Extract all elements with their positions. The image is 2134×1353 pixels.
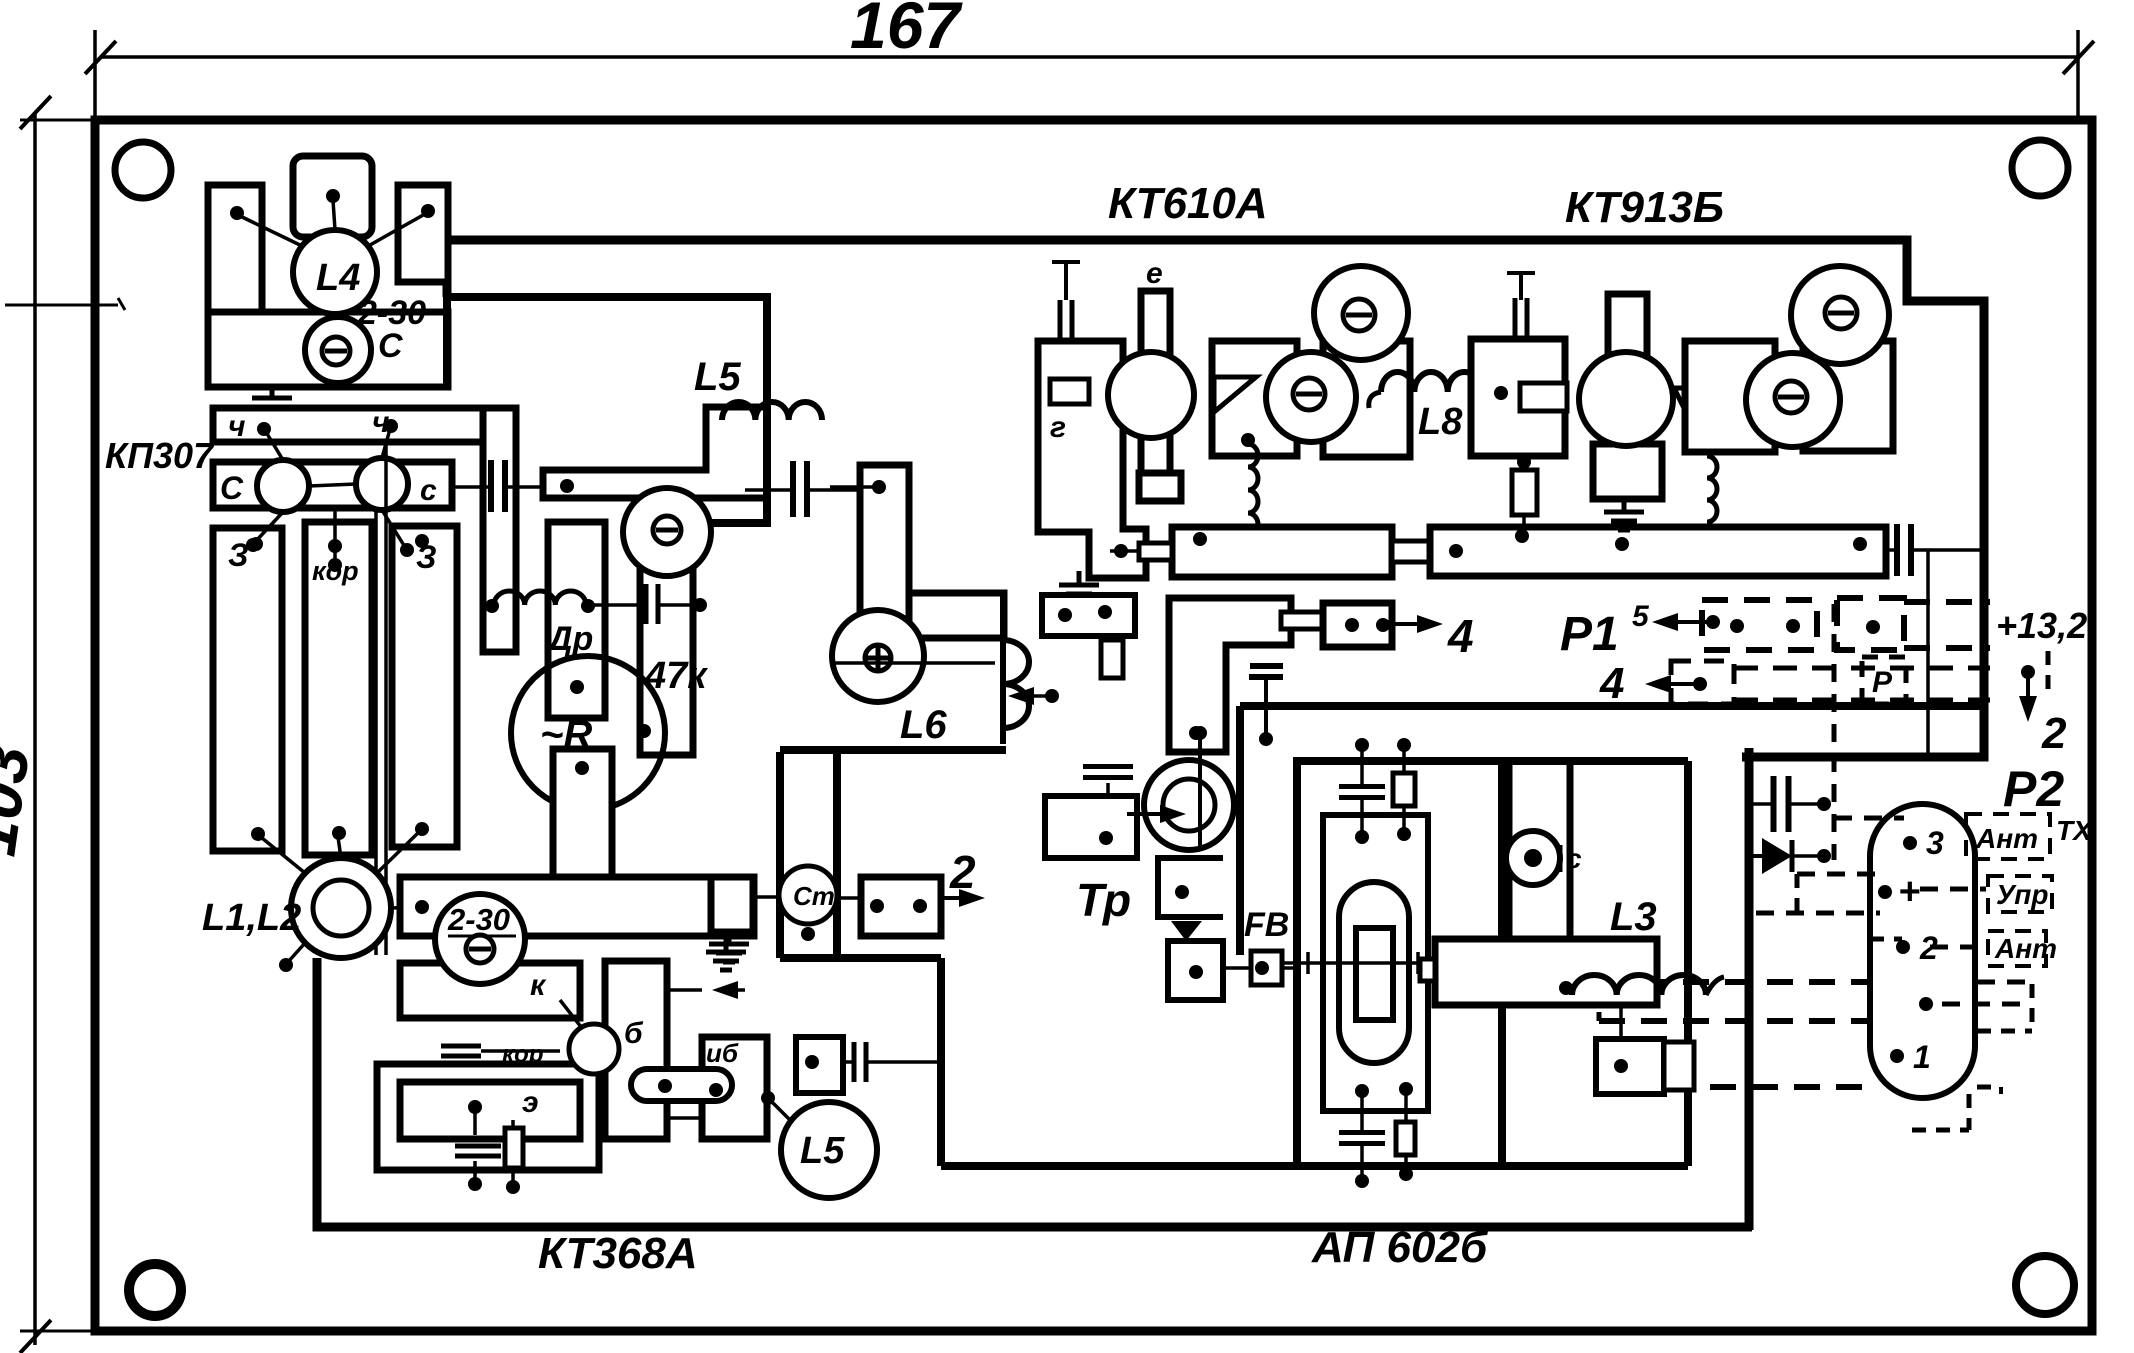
wire: dashed v bottom	[1999, 1087, 2003, 1094]
ground (913)	[1622, 498, 1627, 512]
transformer Tr toroid	[1144, 760, 1234, 850]
dimension line 167 (top)	[100, 55, 2078, 59]
mounting hole top-right	[2012, 140, 2068, 196]
trace: L3 T-bar	[1435, 939, 1657, 1005]
mounting hole bottom-right	[2016, 1256, 2074, 1314]
trimmer theta top (610)	[1314, 266, 1408, 360]
capacitor (P2 in)	[1771, 776, 1777, 832]
trace: 610 base block	[1038, 341, 1146, 578]
capacitor to gnd (913)	[1507, 271, 1535, 275]
wire: St slot left	[776, 752, 784, 958]
trace: 610 right rect	[1323, 341, 1410, 457]
wire: 610 collector arrow notch	[1214, 377, 1256, 412]
trace: collector strip 610	[1172, 527, 1392, 577]
capacitor C coupling	[488, 460, 494, 512]
trace: AP602 inner	[1323, 815, 1428, 1111]
svg-text:с: с	[420, 474, 437, 507]
wire: dashed v1	[1832, 604, 1837, 860]
label Ant TX	[1966, 814, 2050, 859]
trace: left rect at St	[711, 877, 753, 932]
trace: gate bar vertical channel	[483, 408, 516, 652]
trace: block A (oscillator zone)	[447, 297, 767, 523]
wire: arrow 4	[1392, 622, 1417, 626]
wire: Tr arrow	[1127, 812, 1160, 816]
capacitor kor (KT368)	[441, 1044, 481, 1049]
trimmer c (L3)	[1506, 831, 1560, 885]
wire: FB vertical trace	[1236, 706, 1244, 955]
trace: base block (KT368)	[605, 961, 667, 1139]
inductor Dr winding	[494, 591, 586, 605]
wire: boundary vertical	[937, 958, 945, 1166]
svg-text:Тр: Тр	[1076, 874, 1131, 926]
wire: boundary top	[780, 746, 1006, 754]
wire: inner bottom rail	[941, 1162, 1688, 1170]
pin +	[1878, 885, 1892, 899]
wire: dashed h1	[1834, 816, 1904, 821]
capacitor to gnd (L-block)	[1250, 663, 1283, 669]
resistor under E	[505, 1128, 523, 1168]
resistor AP bottom	[1396, 1122, 1415, 1155]
svg-text:к: к	[530, 969, 547, 1002]
wire: dashed h5	[1599, 979, 1868, 985]
svg-text:L4: L4	[316, 257, 360, 299]
wire: St slot right	[833, 752, 841, 958]
resistor AP top	[1393, 773, 1415, 806]
svg-text:Ант: Ант	[1994, 933, 2057, 964]
mounting hole bottom-left	[129, 1264, 181, 1316]
svg-text:ТХ: ТХ	[2056, 815, 2094, 846]
wire: dashed h7	[1626, 1084, 1868, 1090]
svg-text:с: с	[1566, 843, 1582, 874]
wire: dashed to right 1	[1904, 599, 1990, 605]
svg-text:2-30: 2-30	[447, 902, 510, 937]
inductor L6 winding	[1003, 640, 1029, 728]
svg-text:L5: L5	[694, 355, 741, 399]
trace: drain rect 3	[392, 526, 457, 847]
svg-text:L8: L8	[1418, 401, 1463, 443]
svg-text:б: б	[624, 1017, 644, 1050]
trimmer theta top (913)	[1791, 266, 1889, 364]
trace: L6 L-block foot	[909, 593, 1004, 638]
wire: L3 tap	[1619, 1005, 1623, 1052]
svg-text:КТ913Б: КТ913Б	[1565, 183, 1724, 232]
svg-text:э: э	[522, 1086, 539, 1119]
dimension line 103 (left)	[33, 112, 37, 1345]
label Upr	[1988, 876, 2052, 912]
inductor FB bead	[1251, 951, 1282, 985]
svg-text:L3: L3	[1610, 895, 1657, 939]
wire: E rect leads	[473, 1105, 477, 1135]
connector dashed small	[1671, 661, 1734, 704]
wire: dashed bracket r	[2030, 984, 2035, 1031]
resistor ~R ring	[511, 656, 665, 810]
transistor VT2 KP307	[356, 458, 408, 510]
wire: boundary bottom-left	[780, 954, 941, 962]
svg-text:иб: иб	[706, 1038, 739, 1068]
svg-text:Р: Р	[1872, 666, 1893, 699]
svg-text:Др: Др	[545, 620, 593, 658]
trace: 610 emitter foot	[1139, 473, 1181, 501]
wire: dots in ~R	[570, 680, 584, 694]
wire: L6 dot	[872, 480, 886, 494]
inductor L1,L2	[291, 858, 391, 958]
resistor small (610)	[1101, 640, 1123, 678]
capacitor at strip end	[1894, 524, 1900, 576]
svg-text:1: 1	[1913, 1039, 1931, 1075]
wire: links b-ib	[667, 988, 702, 992]
pad: stadium pad	[631, 1069, 732, 1101]
svg-text:167: 167	[850, 0, 963, 62]
wire: stadium dots	[658, 1079, 672, 1093]
trace: L3 right edge	[1684, 761, 1692, 1166]
wire: dashed h6	[1599, 1018, 1868, 1024]
pin 1	[1890, 1049, 1904, 1063]
pad: 610 bottom rect	[1042, 595, 1135, 636]
svg-text:Р1: Р1	[1560, 608, 1619, 661]
wire: L1L2 leads	[262, 838, 305, 873]
trace: K rect	[400, 963, 580, 1018]
trace: base long bar	[400, 877, 754, 936]
svg-text:КТ368А: КТ368А	[538, 1229, 698, 1278]
trace: 913 collector foot	[1593, 444, 1662, 499]
diode VD1	[1749, 854, 1762, 858]
trace: source bar	[213, 462, 452, 508]
capacitor AP top	[1339, 784, 1385, 789]
trimmer capacitor 2-30 (L4)	[305, 317, 371, 383]
trimmer capacitor 2-30 (base)	[435, 894, 525, 984]
svg-text:ч: ч	[228, 410, 246, 443]
trace: gate bar	[213, 408, 515, 442]
wire: bottom dots of drain rects	[251, 827, 265, 841]
trace: L6 L-block vertical	[860, 465, 909, 638]
svg-text:г: г	[1050, 411, 1066, 444]
wire: dots in base bar	[415, 900, 429, 914]
svg-text:+: +	[1898, 871, 1920, 913]
trace: 913 base rect	[1471, 339, 1565, 456]
svg-text:КП307: КП307	[105, 435, 215, 476]
wire: dashed stub	[1597, 982, 1602, 1021]
trace: L4 U-channel bottom bar	[208, 312, 448, 387]
svg-text:2: 2	[949, 846, 976, 898]
pad: T-bar stub	[1420, 959, 1435, 981]
wire: arrow down 2	[2021, 665, 2035, 679]
transistor KT368 body	[569, 1024, 619, 1074]
transistor AP602 tube	[1339, 882, 1409, 1063]
svg-text:КТ610А: КТ610А	[1108, 179, 1268, 228]
stray fold mark	[5, 304, 118, 307]
connector P1 dashed box 2	[1837, 598, 1904, 650]
pad: L3 tap rect 2	[1664, 1042, 1694, 1090]
resistor squiggle (610)	[1248, 444, 1258, 536]
trace: 610 collector rect	[1212, 341, 1297, 456]
resistor ~R upper channel	[548, 522, 605, 718]
trace: rect 4	[1323, 603, 1392, 647]
mounting hole top-left	[115, 142, 171, 198]
wire: dot in L-channel	[560, 479, 574, 493]
ground under base bar	[724, 938, 729, 952]
wire: long vertical right	[1745, 748, 1754, 1230]
trimmer capacitor (L5)	[630, 521, 767, 525]
wire: arrow left small	[738, 988, 745, 992]
wire: k lead	[560, 1000, 585, 1032]
wire: long thin leads down	[374, 508, 378, 955]
ground near L4	[270, 384, 275, 398]
wire: arrow P1	[1678, 620, 1713, 624]
resistor ~R lower channel	[553, 749, 612, 877]
wire: dashed h2	[1797, 872, 1886, 877]
svg-text:+13,2: +13,2	[1996, 605, 2087, 646]
wire: fet leads	[266, 432, 283, 460]
transistor KT913B body	[1579, 352, 1673, 446]
svg-text:L6: L6	[900, 703, 947, 747]
capacitor above Tr	[1083, 764, 1133, 769]
pin 2	[1896, 940, 1910, 954]
svg-text:З: З	[416, 539, 437, 575]
diode VD2	[1171, 921, 1202, 941]
connector dashed P box	[1862, 657, 1906, 704]
wire: dashed h4	[1870, 937, 1902, 942]
svg-text:L5: L5	[800, 1130, 845, 1172]
capacitor under E	[455, 1144, 501, 1149]
wire: L6 arrow	[1034, 694, 1052, 698]
pin mid	[1919, 997, 1933, 1011]
svg-text:Ст: Ст	[793, 881, 835, 911]
trace: drain rect 2 (kor)	[305, 522, 372, 855]
transistor VT1 KP307	[257, 460, 309, 512]
wire: dashed h3	[1756, 911, 1880, 916]
inductor L3 winding	[1572, 975, 1706, 995]
svg-text:4: 4	[1447, 610, 1474, 662]
trace: L-channel	[543, 407, 767, 498]
pad: small rect right of ib	[796, 1037, 843, 1093]
svg-text:Упр: Упр	[1996, 879, 2048, 910]
trace: 913 right rect	[1685, 341, 1775, 452]
resistor squiggle (913)	[1707, 456, 1717, 522]
trace: L3 top rail	[1297, 757, 1688, 765]
trace: L-block under 610	[1169, 598, 1291, 752]
svg-text:е: е	[1146, 257, 1163, 290]
wire: L4 leads	[333, 200, 335, 230]
svg-text:Ант: Ант	[1975, 823, 2038, 854]
wire: arrow out 2	[941, 896, 959, 900]
trimmer theta (610)	[1266, 352, 1356, 442]
pad: stub to arrow 4	[1281, 612, 1323, 629]
wire: bottom ground loop	[317, 958, 1752, 1227]
connector P2 stadium	[1870, 804, 1975, 1098]
pad: strip stub left	[1139, 543, 1172, 560]
transistor AP602 die	[1356, 928, 1393, 1020]
svg-text:FB: FB	[1244, 906, 1289, 944]
wire: dashed bracket right	[2046, 651, 2051, 695]
capacitor AP bottom	[1339, 1130, 1385, 1135]
pin 3	[1903, 836, 1917, 850]
trace: 913 out rect	[1803, 341, 1893, 451]
wire: AP602 mid line	[1280, 961, 1437, 965]
svg-text:L1,L2: L1,L2	[202, 897, 301, 939]
svg-text:4: 4	[1599, 659, 1624, 708]
capacitor right of ib	[852, 1042, 857, 1082]
svg-text:АП 602б: АП 602б	[1311, 1223, 1489, 1272]
wire: feed line 706	[1240, 702, 1984, 710]
trace: L3 slot left	[1506, 761, 1513, 939]
connector P1 dashed box 1	[1702, 600, 1817, 650]
inductor L8 winding	[1381, 372, 1481, 392]
wire: dashed v2	[1795, 874, 1800, 913]
pad: Tr bracket	[1158, 858, 1223, 917]
wire: dashed row 2	[1734, 666, 1990, 671]
capacitor coupling 2	[790, 461, 796, 517]
pad: strip connector	[1392, 541, 1432, 562]
trace: E rect	[400, 1082, 580, 1139]
trace: emitter frame	[377, 1064, 599, 1170]
svg-text:3: 3	[1926, 825, 1944, 861]
trimmer St	[753, 895, 780, 899]
pad: rect left of Tr	[1045, 796, 1137, 858]
svg-text:5: 5	[1632, 600, 1650, 633]
svg-text:З: З	[228, 537, 249, 573]
label Ant 2	[1988, 931, 2046, 966]
ground (610)	[1077, 571, 1082, 585]
pad: 913 base stub	[1520, 383, 1567, 411]
transistor KT610A body	[1108, 352, 1194, 438]
trimmer capacitor (L6)	[832, 610, 924, 702]
pad: rect under diode	[1168, 941, 1223, 1000]
wire: L5 bottom lead	[770, 1100, 790, 1120]
svg-text:~R: ~R	[540, 713, 592, 757]
trace: AP602 outer	[1297, 761, 1502, 1166]
inductor L5 (bottom) body	[781, 1102, 877, 1198]
trace: output rect 2	[861, 877, 941, 936]
svg-text:C: C	[378, 327, 403, 365]
wire: main supply loop	[447, 240, 1984, 757]
wire: 913 emitter arrow	[1674, 388, 1740, 412]
trace: L4 U-channel right arm	[398, 185, 448, 282]
inductor L5 winding	[722, 402, 822, 420]
inductor L4 body	[293, 230, 377, 314]
capacitor after Dr	[644, 584, 649, 624]
resistor vertical (913 base)	[1512, 470, 1537, 515]
pad: L3 tap rect	[1596, 1039, 1664, 1094]
svg-text:С: С	[220, 470, 244, 506]
trace: ib rect	[702, 1037, 767, 1139]
svg-text:Р2: Р2	[2003, 761, 2064, 817]
trimmer theta (913)	[1746, 353, 1840, 447]
pad: 610 base notch	[1050, 379, 1089, 404]
trace: L4 U-channel left arm	[208, 185, 262, 387]
wire: arrow 4 second	[1671, 682, 1700, 686]
svg-text:кор: кор	[312, 556, 359, 586]
wire: thin drop to P1	[1926, 550, 1930, 757]
trace: L3 slot right	[1567, 761, 1574, 939]
pad: L4 top pad	[293, 156, 372, 237]
trace: collector strip 913	[1430, 527, 1886, 576]
trace: 610 emitter channel	[1141, 291, 1170, 501]
trace: 47k slot	[640, 548, 693, 755]
capacitor to gnd (610 base)	[1052, 260, 1080, 264]
trace: 913 collector channel	[1608, 294, 1647, 450]
trace: drain rect 1	[213, 528, 282, 851]
wire: top dots of drain rects	[249, 537, 263, 551]
svg-text:2: 2	[2041, 709, 2067, 758]
